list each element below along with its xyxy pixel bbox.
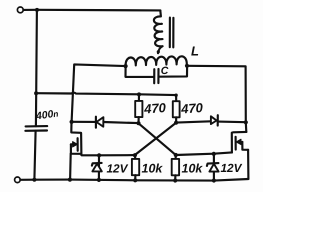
wire left gate rail (82, 154, 135, 156)
Q2 bulk arrow (240, 141, 243, 143)
node top-left junction (35, 8, 39, 12)
node 470 R2 top (174, 94, 177, 97)
terminal top-left (17, 7, 23, 13)
svg-text:10k: 10k (182, 162, 204, 176)
node R1 bottom junction (136, 121, 140, 125)
wire right gate rail (176, 152, 232, 155)
Q1 bulk arrow (71, 143, 74, 145)
capacitor C2 400n plates (26, 125, 48, 127)
node R2 bottom junction (174, 121, 178, 125)
capacitor C1 plates (153, 69, 155, 83)
transistor Q2 right MOSFET: drain step (233, 131, 246, 134)
inductor L2 choke (vertical, 4 loops) (154, 10, 163, 53)
core bars (169, 18, 171, 48)
node 10k RR top (174, 153, 178, 157)
node 10k RL bottom (133, 178, 137, 182)
node gnd 400n (32, 178, 36, 182)
node gnd left source (68, 178, 72, 182)
wire tank-left to left drain (72, 64, 126, 121)
node tank left (124, 64, 128, 68)
node +V to 470 rail (34, 91, 38, 95)
svg-text:470: 470 (180, 100, 204, 117)
resistor R3 10k (134, 155, 137, 159)
resistor R2 470 (175, 95, 177, 101)
wire ground rail (20, 179, 248, 181)
wire tank-right to right drain rail (187, 66, 246, 132)
Q2 gate plate (235, 137, 237, 150)
node zener ZL bottom (97, 178, 101, 182)
wire cross-coupling diagonal R2-bottom to left gate (135, 123, 176, 155)
svg-text:C: C (161, 65, 169, 77)
wire 400n to ground rail (34, 131, 35, 180)
wire cross-coupling diagonal R1-bottom to right gate (139, 123, 176, 154)
svg-text:12V: 12V (107, 162, 129, 176)
zener D3 12V left (98, 155, 100, 180)
svg-text:400n: 400n (34, 108, 59, 122)
svg-text:12V: 12V (221, 161, 243, 175)
node left drain junction (70, 120, 74, 124)
node zener ZR top (212, 152, 216, 156)
node tank right (185, 64, 189, 68)
diode D1 wire left (72, 121, 96, 123)
diode D2 (triangle points right, cathode bar right) (211, 116, 217, 124)
wire left +V rail (36, 10, 37, 126)
wire +V rail to 470 tops (hops over drain wire) (36, 93, 176, 96)
node 10k RR bottom (173, 178, 177, 182)
Q2 source wires (242, 142, 248, 150)
diode D1 (cathode bar left, triangle points left) (95, 117, 97, 128)
Q2 channel (231, 133, 233, 153)
svg-text:L: L (191, 44, 199, 59)
inductor L1 tank (horizontal, 6 bumps) (126, 56, 187, 66)
Q1 channel (80, 133, 82, 155)
node 10k RL top (133, 153, 137, 157)
node right drain junction (244, 120, 248, 124)
terminal bottom-left (15, 177, 21, 183)
Q1 gate plate (77, 138, 79, 151)
node zener ZL top (97, 153, 101, 157)
node 470 R1 top (137, 92, 141, 96)
svg-text:470: 470 (143, 100, 167, 117)
wire top supply (23, 9, 160, 12)
resistor R4 10k (175, 155, 177, 159)
Q1 source wires (71, 144, 81, 153)
resistor R1 470 (138, 94, 140, 101)
node center tap (157, 50, 160, 53)
zener D4 12V right (213, 154, 215, 181)
capacitor C1 tank branch wires (126, 66, 155, 77)
svg-text:10k: 10k (142, 162, 164, 176)
node zener ZR bottom (212, 178, 216, 182)
transistor Q1 left MOSFET: drain step (71, 122, 80, 133)
diode D2 wire left (176, 121, 211, 122)
